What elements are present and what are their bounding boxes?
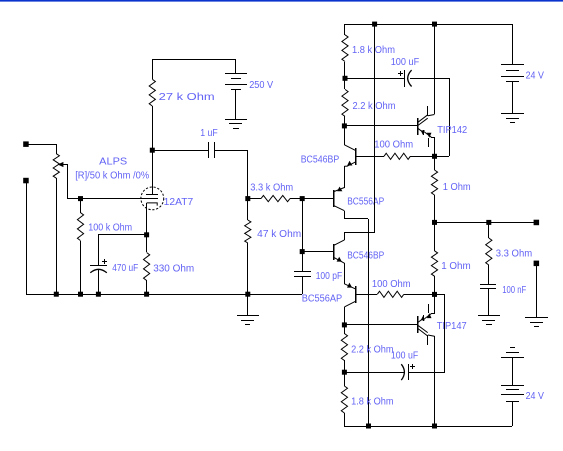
- label 3.3 k Ohm: [250, 183, 293, 194]
- capacitor 100uF bottom curved plate: [401, 364, 404, 380]
- capacitor 100uF bottom straight plate: [408, 364, 410, 380]
- label 24 V bottom: [526, 391, 545, 402]
- svg-text:[R]/50 k Ohm /0%: [R]/50 k Ohm /0%: [75, 171, 149, 182]
- svg-text:100 Ohm: 100 Ohm: [374, 140, 413, 151]
- wire bottom rail: [344, 426, 512, 428]
- wire 100pF to rail: [302, 277, 304, 294]
- wire top junction to 100uF: [345, 78, 404, 80]
- node grid junction: [78, 196, 83, 201]
- svg-text:330 Ohm: 330 Ohm: [153, 263, 194, 274]
- label 330 Ohm: [153, 263, 194, 274]
- wire TIP147 emitter to junction: [434, 294, 436, 314]
- capacitor 100 pF: [294, 272, 311, 277]
- resistor 100 Ohm bottom: [377, 291, 404, 297]
- transistor TIP142 base lead: [344, 125, 417, 127]
- resistor 1.8 k Ohm bottom: [341, 386, 347, 413]
- label 100 nF: [502, 285, 526, 296]
- transistor TIP142 base bar: [417, 118, 419, 135]
- wire TIP147 collector to bottom rail: [428, 335, 435, 426]
- svg-text:BC546BP: BC546BP: [347, 251, 384, 262]
- wire wiper down: [67, 164, 69, 199]
- node bottom rail TIP column: [432, 424, 437, 429]
- resistor 2.2k bottom wires: [344, 325, 346, 372]
- label 100 k Ohm: [88, 223, 132, 234]
- wire top rail: [345, 24, 512, 26]
- node 100k bottom on rail: [78, 292, 83, 297]
- label 100 uF top: [391, 57, 420, 68]
- svg-text:TIP147: TIP147: [437, 321, 467, 332]
- wire 100 Ohm to junction: [410, 156, 434, 158]
- wire Q2 collector to lower rail: [344, 219, 369, 427]
- svg-text:BC556AP: BC556AP: [347, 197, 384, 208]
- capacitor 1 uF: [209, 142, 215, 158]
- wire node A down: [302, 199, 304, 252]
- transistor Q4 base lead wire: [355, 294, 377, 296]
- svg-text:24 V: 24 V: [526, 391, 545, 402]
- resistor 1 Ohm first wires: [434, 156, 436, 222]
- wire IN1 to potentiometer top: [26, 144, 56, 146]
- resistor 1 Ohm second: [431, 251, 437, 276]
- label 47 k Ohm: [257, 229, 301, 240]
- node output junction: [432, 220, 437, 225]
- transistor TIP142 collector diagonals: [418, 115, 428, 126]
- resistor 47k wires: [247, 199, 249, 294]
- transistor TIP147 base bar: [417, 316, 419, 333]
- svg-text:250 V: 250 V: [249, 80, 273, 91]
- transistor TIP142 inner bar: [427, 106, 429, 116]
- transistor TIP142 emitter strokes: [418, 128, 434, 147]
- input terminal IN1: [23, 141, 29, 147]
- ground below tube rail: [237, 294, 259, 325]
- svg-text:100 k Ohm: 100 k Ohm: [88, 223, 132, 234]
- transistor Q1 emitter: [345, 161, 356, 188]
- transistor TIP147 inner bar: [427, 335, 429, 345]
- wire output junction to terminal: [434, 222, 536, 224]
- svg-text:1 uF: 1 uF: [200, 128, 218, 139]
- label TIP142: [437, 125, 467, 136]
- transistor Q1 base bar: [355, 148, 357, 165]
- ground below 250V battery: [225, 120, 247, 129]
- label BC556AP for Q2: [347, 197, 384, 208]
- node 330 bottom on rail: [144, 292, 149, 297]
- wire grid junction to tube grid: [80, 198, 158, 200]
- label BC546BP for Q3: [347, 251, 384, 262]
- label 3.3 Ohm: [496, 249, 533, 260]
- svg-text:470 uF: 470 uF: [112, 263, 138, 274]
- label BC546BP for Q1: [301, 154, 340, 165]
- svg-text:3.3 k Ohm: 3.3 k Ohm: [250, 183, 293, 194]
- wire battery 250V bottom lead: [235, 89, 237, 119]
- svg-text:100 nF: 100 nF: [502, 285, 526, 296]
- transistor Q4 BC556AP emitter: [344, 283, 355, 289]
- svg-text:100 uF: 100 uF: [391, 57, 420, 68]
- node TIP142 emitter junction: [432, 154, 437, 159]
- label ALPS: [99, 157, 127, 168]
- label BC556AP for Q4: [302, 294, 343, 305]
- svg-text:47 k Ohm: 47 k Ohm: [257, 229, 301, 240]
- transistor TIP147 collector diagonals: [418, 325, 428, 336]
- label 100 Ohm bottom: [372, 279, 411, 290]
- label 100 Ohm top: [374, 140, 413, 151]
- transistor Q3 collector: [333, 232, 344, 246]
- potentiometer R pot body 50k: [53, 154, 59, 179]
- resistor 2.2k top wires: [344, 78, 346, 126]
- capacitor 100 nF: [480, 285, 496, 289]
- node cap bottom on rail: [96, 292, 101, 297]
- wire wiper to grid junction: [68, 198, 80, 200]
- wire 24V top to ground: [512, 81, 514, 114]
- svg-text:27 k Ohm: 27 k Ohm: [159, 92, 215, 103]
- wire 100uF top to TIP emitter node: [410, 78, 450, 157]
- battery 24V top: [501, 65, 524, 82]
- node driver input A: [300, 196, 305, 201]
- battery 24V bottom: [501, 386, 524, 402]
- wire 100nF to ground: [488, 289, 490, 316]
- wire plate supply rail: [152, 59, 236, 61]
- resistor 47 k Ohm: [245, 220, 251, 243]
- resistor 27 k Ohm: [149, 79, 155, 106]
- tube grid bar: [145, 198, 158, 200]
- label 1 Ohm first: [443, 182, 471, 193]
- label 100 pF: [316, 271, 343, 282]
- node top rail to TIP column: [432, 22, 437, 27]
- input terminal IN2: [23, 178, 29, 184]
- wire tube ground rail: [26, 294, 302, 296]
- resistor 100k grid leak wires: [80, 199, 82, 294]
- transistor Q2 emitter: [333, 170, 344, 192]
- node driver input B: [300, 249, 305, 254]
- capacitor 470uF plus plate: [90, 265, 107, 267]
- svg-text:24 V: 24 V: [526, 71, 545, 82]
- wire 1uF to 3.3k node: [214, 150, 248, 199]
- label TIP147: [437, 321, 467, 332]
- transistor Q2 base bar: [333, 190, 335, 207]
- resistor 100k Ohm: [77, 213, 83, 241]
- node 47k top junction: [245, 196, 250, 201]
- tube 12AT7 envelope: [141, 187, 164, 210]
- label 2.2 k Ohm bottom: [351, 344, 394, 355]
- svg-text:12AT7: 12AT7: [164, 197, 194, 208]
- wire cathode junction to cap: [98, 235, 147, 267]
- resistor 1.8k top wires: [344, 24, 346, 78]
- battery 250V: [225, 74, 247, 90]
- svg-text:100 Ohm: 100 Ohm: [372, 279, 411, 290]
- svg-text:BC546BP: BC546BP: [301, 154, 340, 165]
- svg-text:1 Ohm: 1 Ohm: [443, 182, 471, 193]
- capacitor 470uF curved plate: [90, 269, 107, 273]
- ground above 24V bottom battery: [501, 348, 524, 358]
- resistor 2.2 k Ohm top: [342, 89, 348, 116]
- wire potentiometer top lead: [56, 144, 58, 154]
- label 1 Ohm second: [441, 261, 471, 272]
- resistor 3.3 k Ohm: [261, 196, 290, 202]
- label 2.2 k Ohm top: [353, 101, 396, 112]
- svg-text:1.8 k Ohm: 1.8 k Ohm: [351, 397, 394, 408]
- transistor Q1 base lead wire: [356, 156, 384, 158]
- output terminal OUT1: [534, 220, 540, 226]
- tube plate lead: [152, 150, 154, 194]
- transistor Q1 BC546BP collector: [344, 126, 355, 150]
- label 1.8 k Ohm top: [352, 45, 395, 56]
- wire plate to 1uF: [152, 150, 208, 152]
- ground below 24V top battery: [501, 114, 524, 123]
- transistor Q2 BC556AP base lead: [302, 198, 333, 200]
- wire TIP142 collector to top rail: [428, 24, 435, 116]
- ground below 100nF: [478, 316, 500, 325]
- node TIP147 base junction: [342, 322, 347, 327]
- node 1.8k/2.2k top junction: [343, 76, 348, 81]
- potentiometer wiper arrow: [58, 162, 68, 167]
- node pot bottom on rail: [54, 292, 59, 297]
- svg-text:ALPS: ALPS: [99, 157, 127, 168]
- wire node B to 100pF: [302, 252, 304, 271]
- label 1 uF: [200, 128, 218, 139]
- label 250 V: [249, 80, 273, 91]
- transistor Q3 BC546BP base lead: [302, 251, 333, 253]
- top border bar: [0, 0, 563, 2]
- transistor Q3 base bar: [333, 244, 335, 260]
- node cathode junction: [144, 232, 149, 237]
- svg-text:2.2 k Ohm: 2.2 k Ohm: [353, 101, 396, 112]
- capacitor 470uF plus sign: [102, 259, 107, 264]
- svg-text:3.3 Ohm: 3.3 Ohm: [496, 249, 533, 260]
- transistor TIP147 emitter strokes: [418, 304, 434, 323]
- resistor 27k wires: [152, 59, 154, 150]
- wire Q3 collector to upper rail: [344, 24, 375, 233]
- node 2.2k/1.8k bottom junction: [342, 370, 347, 375]
- resistor 100 Ohm top: [384, 153, 410, 159]
- transistor Q2 collector: [333, 205, 344, 219]
- resistor 3.3k wires: [248, 198, 302, 200]
- wire ground to battery bottom: [512, 357, 514, 385]
- tube cathode: [147, 203, 158, 235]
- wire IN2 down to ground rail: [26, 181, 28, 294]
- resistor 3.3 Ohm wires: [488, 222, 490, 284]
- capacitor 100uF top curved plate: [408, 70, 412, 86]
- label 100 uF bottom: [391, 350, 418, 361]
- node top rail to driver rail: [372, 22, 377, 27]
- capacitor 100uF top straight plate: [404, 70, 406, 87]
- svg-text:100 uF: 100 uF: [391, 350, 418, 361]
- node 47k bottom on rail: [245, 292, 250, 297]
- tube plate bar: [146, 194, 158, 196]
- resistor 330 Ohm: [144, 253, 150, 281]
- wire 24V bottom to bottom rail: [512, 401, 514, 426]
- svg-text:1 Ohm: 1 Ohm: [441, 261, 471, 272]
- resistor 1.8 k Ohm top: [342, 35, 348, 62]
- output terminal OUT2: [534, 261, 540, 267]
- label 12AT7: [164, 197, 194, 208]
- node zobel junction: [486, 220, 491, 225]
- transistor TIP147 base lead: [344, 324, 417, 326]
- resistor 1 Ohm first: [431, 170, 437, 195]
- ground below OUT2: [525, 318, 548, 327]
- transistor Q3 emitter: [333, 257, 344, 284]
- svg-text:2.2 k Ohm: 2.2 k Ohm: [351, 344, 394, 355]
- resistor 1 Ohm second wires: [434, 222, 436, 294]
- transistor Q4 base bar: [355, 286, 357, 303]
- wire 100 Ohm bottom to junction: [404, 294, 434, 296]
- wire bottom junction to 100uF: [344, 372, 404, 374]
- resistor 1.8k bottom wires: [344, 372, 346, 426]
- wire 100uF bottom to TIP147 junction: [408, 294, 445, 373]
- svg-text:BC556AP: BC556AP: [302, 294, 343, 305]
- resistor 330 Ohm wires: [146, 235, 148, 294]
- label 27 k Ohm: [159, 92, 215, 103]
- wire cap to rail: [98, 269, 100, 294]
- capacitor 100uF bottom plus sign: [410, 364, 415, 369]
- label 470 uF: [112, 263, 138, 274]
- wire potentiometer bottom lead to ground rail: [56, 178, 58, 294]
- wire TIP142 emitter to junction: [434, 137, 436, 156]
- node TIP147 emitter junction: [432, 292, 437, 297]
- wire OUT2 to ground: [536, 263, 538, 317]
- node bottom rail driver rail: [366, 424, 371, 429]
- capacitor 100uF top plus sign: [398, 71, 403, 76]
- svg-text:TIP142: TIP142: [437, 125, 467, 136]
- resistor 2.2 k Ohm bottom: [341, 334, 347, 361]
- node TIP142 base junction: [342, 123, 347, 128]
- node plate junction: [150, 148, 155, 153]
- wire battery 250V top lead: [235, 59, 237, 74]
- wire top rail to 24V battery: [512, 24, 514, 65]
- svg-text:1.8 k Ohm: 1.8 k Ohm: [352, 45, 395, 56]
- label 24 V top: [526, 71, 545, 82]
- resistor 3.3 Ohm: [486, 238, 492, 265]
- svg-text:100 pF: 100 pF: [316, 271, 343, 282]
- label 1.8 k Ohm bottom: [351, 397, 394, 408]
- transistor Q4 collector: [344, 301, 355, 325]
- label [R]/50 k Ohm /0%: [75, 171, 149, 182]
